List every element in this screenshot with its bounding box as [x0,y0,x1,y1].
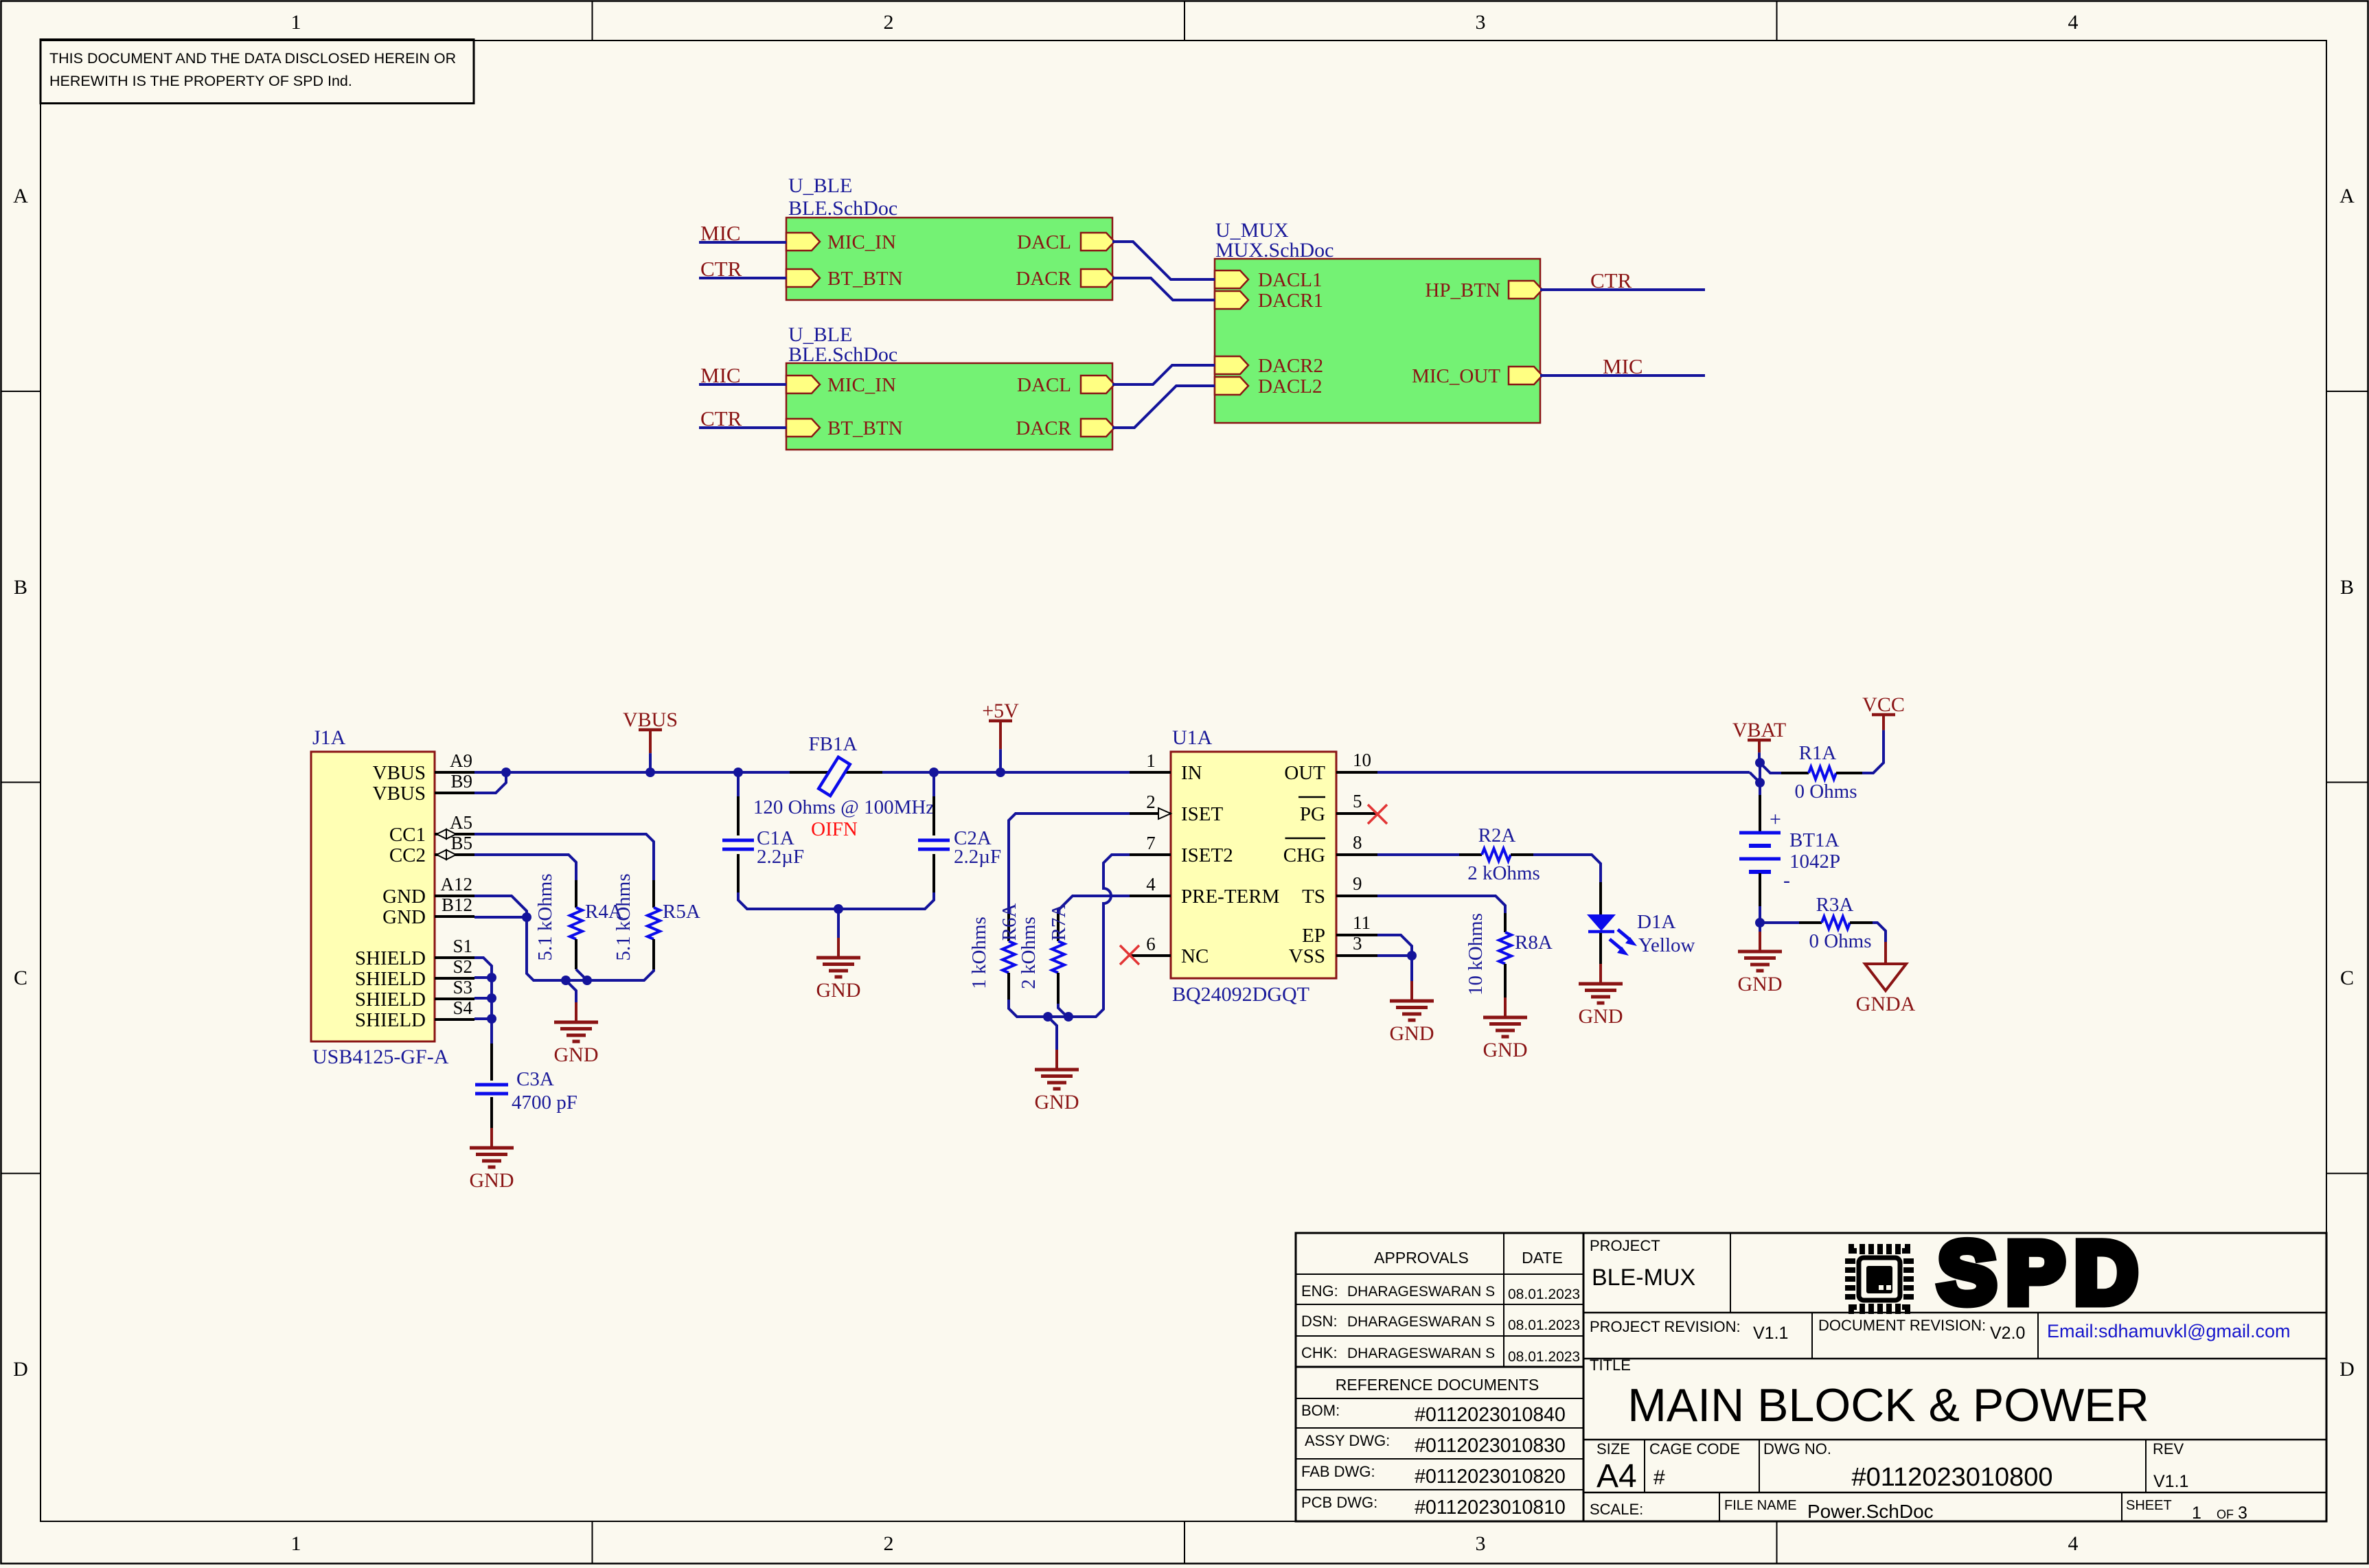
junction battery node [1755,778,1765,787]
junction S4 [487,1014,496,1024]
svg-text:PROJECT: PROJECT [1590,1237,1660,1254]
svg-text:3: 3 [2238,1503,2247,1523]
pin S1 SHIELD of J1A [355,936,474,969]
svg-text:S1: S1 [453,936,472,956]
svg-text:5.1 kOhms: 5.1 kOhms [534,873,556,960]
wire filter GND stem [837,909,840,938]
svg-text:DHARAGESWARAN S: DHARAGESWARAN S [1347,1314,1495,1330]
svg-text:DACL2: DACL2 [1258,376,1322,397]
power port VBUS [623,708,678,772]
pin B9 VBUS of J1A [373,771,474,805]
wire between VBAT and battery nodes [1759,763,1761,783]
svg-text:CC1: CC1 [389,824,426,846]
svg-text:BQ24092DGQT: BQ24092DGQT [1172,983,1309,1006]
svg-text:C: C [14,967,27,989]
svg-text:Email:sdhamuvkl@gmail.com: Email:sdhamuvkl@gmail.com [2047,1321,2291,1341]
svg-text:Yellow: Yellow [1638,934,1695,956]
svg-text:DACL1: DACL1 [1258,269,1322,291]
svg-text:VBUS: VBUS [373,783,426,805]
svg-text:B12: B12 [442,895,472,915]
title block frame [1296,1233,2326,1521]
svg-text:ASSY DWG:: ASSY DWG: [1305,1432,1390,1449]
wire VBUS rail to +5V [882,771,1130,774]
sheet symbol U_BLE (bottom) [786,363,1112,450]
pin 10 OUT of U1A [1284,750,1377,784]
sheet entry MIC_IN (top BLE) [786,231,896,253]
svg-text:C: C [2340,967,2354,989]
wire DACR (top BLE) to DACR1 [1112,278,1215,300]
svg-text:11: 11 [1353,912,1371,933]
svg-text:NC: NC [1181,945,1209,967]
sheet entry DACL (top BLE) [1017,231,1114,253]
sheet symbol U_BLE (top) [786,218,1112,300]
sheet entry HP_BTN [1425,279,1542,301]
svg-text:3: 3 [1353,933,1362,954]
ground GND (R6A R7A) [1035,1050,1079,1114]
sheet entry DACR (bottom BLE) [1016,417,1114,439]
svg-text:3: 3 [1476,11,1486,34]
svg-text:08.01.2023: 08.01.2023 [1508,1317,1580,1333]
resistor R6A [1003,914,1015,1000]
svg-text:B: B [2340,576,2354,599]
pin 2 input arrow [1158,808,1171,819]
svg-text:THIS DOCUMENT AND THE DATA DIS: THIS DOCUMENT AND THE DATA DISCLOSED HER… [49,50,456,67]
svg-text:CTR: CTR [1590,268,1632,292]
sheet entry MIC_OUT [1412,365,1542,387]
svg-text:USB4125-GF-A: USB4125-GF-A [312,1046,449,1068]
svg-text:10: 10 [1353,750,1371,770]
junction battery negative [1755,918,1765,927]
svg-text:DWG NO.: DWG NO. [1763,1440,1831,1457]
resistor R1A [1781,767,1862,779]
svg-text:C3A: C3A [516,1068,554,1090]
svg-text:MAIN BLOCK & POWER: MAIN BLOCK & POWER [1627,1379,2149,1431]
svg-text:3: 3 [1476,1532,1486,1555]
svg-text:120 Ohms @ 100MHz: 120 Ohms @ 100MHz [753,796,935,818]
zone labels right [2339,185,2355,1381]
svg-text:V1.1: V1.1 [2153,1472,2188,1491]
wire DACR (bottom BLE) to DACL2 [1112,386,1215,428]
pin 4 PRE-TERM of U1A [1130,874,1279,908]
wire HP_BTN to CTR [1540,288,1705,291]
pin A12 GND of J1A [382,874,474,908]
svg-text:OF: OF [2217,1508,2234,1521]
svg-text:GND: GND [470,1169,514,1192]
svg-text:1 kOhms: 1 kOhms [968,916,990,989]
svg-text:SHIELD: SHIELD [355,1009,426,1031]
wire SHIELD S4 [474,1017,492,1020]
capacitor C1A [722,772,754,892]
svg-text:A12: A12 [441,874,473,895]
svg-text:EP: EP [1302,925,1325,947]
pin A5 CC1 of J1A [389,812,474,846]
pin 5 PG of U1A [1298,791,1377,825]
svg-text:FB1A: FB1A [809,733,858,755]
svg-text:SHIELD: SHIELD [355,968,426,990]
svg-text:DACR: DACR [1016,417,1071,439]
junction S3 [487,993,496,1003]
svg-text:DACL: DACL [1017,231,1071,253]
svg-text:D: D [2339,1358,2355,1381]
svg-text:2 kOhms: 2 kOhms [1018,916,1040,989]
svg-text:9: 9 [1353,873,1362,894]
junction +5V stem [996,768,1005,777]
svg-text:VBAT: VBAT [1732,719,1786,741]
svg-text:GND: GND [382,886,426,908]
svg-text:0 Ohms: 0 Ohms [1794,781,1857,803]
svg-text:MIC_IN: MIC_IN [827,231,896,253]
svg-text:U_BLE: U_BLE [788,174,852,197]
svg-text:MUX.SchDoc: MUX.SchDoc [1215,239,1334,262]
svg-text:DOCUMENT REVISION:: DOCUMENT REVISION: [1818,1317,1986,1334]
svg-text:MIC_IN: MIC_IN [827,374,896,396]
junction GND tap [561,976,571,985]
no-connect cross pin 5 [1368,805,1387,824]
zone labels bottom [291,1532,2079,1555]
wire CTR to bottom BLE BT_BTN [699,426,786,429]
junction R7A bottom [1064,1012,1073,1022]
wire R1A to VCC [1862,743,1884,773]
ferrite bead FB1A [790,757,882,796]
pin S2 SHIELD of J1A [355,956,474,990]
wire R3A to GNDA [1873,923,1886,942]
svg-text:BT_BTN: BT_BTN [827,417,903,439]
scale row text [1590,1498,2247,1523]
power port VCC [1862,693,1905,743]
svg-text:GND: GND [1483,1039,1528,1061]
junction C2A top [929,768,939,777]
junction S2 [487,973,496,982]
IC U1A body [1171,752,1336,978]
svg-text:VCC: VCC [1862,693,1905,716]
sheet entry DACL2 [1215,376,1322,397]
svg-text:2 kOhms: 2 kOhms [1467,862,1540,884]
svg-text:SCALE:: SCALE: [1590,1501,1643,1518]
svg-text:4: 4 [2068,11,2079,34]
wire OUT rail [1377,771,1750,774]
svg-text:ISET2: ISET2 [1181,844,1233,866]
svg-text:FILE NAME: FILE NAME [1724,1498,1797,1513]
zone labels top [291,11,2079,34]
svg-text:MIC: MIC [1603,354,1643,378]
svg-text:4700 pF: 4700 pF [512,1092,577,1114]
svg-text:S3: S3 [453,977,472,998]
wire CC1 to R5A [474,834,654,880]
pin S4 SHIELD of J1A [355,998,474,1031]
svg-text:2: 2 [1146,792,1156,812]
svg-text:2: 2 [884,1532,894,1555]
svg-text:1042P: 1042P [1789,851,1840,873]
sheet entry BT_BTN (bottom BLE) [786,417,903,439]
wire shield bus vertical [490,978,493,1044]
svg-text:A5: A5 [450,812,472,833]
svg-text:SHEET: SHEET [2126,1498,2172,1513]
svg-text:REFERENCE DOCUMENTS: REFERENCE DOCUMENTS [1336,1376,1539,1394]
svg-text:BLE.SchDoc: BLE.SchDoc [788,197,897,220]
svg-text:1: 1 [1146,750,1156,771]
svg-text:V1.1: V1.1 [1753,1324,1788,1343]
svg-text:APPROVALS: APPROVALS [1374,1249,1469,1267]
wire R2A to D1A [1533,855,1601,882]
size row text [1596,1440,2188,1495]
wire DACL (bottom BLE) to DACR2 [1112,365,1215,384]
wire R6A bottom to ISET2 riser [1009,855,1130,1017]
document ownership note box [41,40,474,104]
svg-text:DACR1: DACR1 [1258,290,1323,312]
wire VBAT node to R1A [1760,763,1781,773]
capacitor C2A [918,772,950,892]
sheet entry MIC_IN (bottom BLE) [786,374,896,396]
connector J1A body [311,752,435,1041]
wire VSS [1377,954,1412,957]
sheet entry BT_BTN (top BLE) [786,268,903,290]
junction VBAT node [1755,758,1765,768]
svg-text:R8A: R8A [1515,932,1553,954]
battery BT1A [1739,783,1790,923]
svg-text:BLE.SchDoc: BLE.SchDoc [788,343,897,366]
pin A9 VBUS of J1A [373,750,474,784]
svg-text:J1A: J1A [312,726,346,749]
svg-text:B9: B9 [450,771,472,792]
svg-text:2.2µF: 2.2µF [954,846,1001,868]
wire SHIELD S2 [474,976,492,979]
svg-text:VSS: VSS [1289,945,1325,967]
svg-text:GND: GND [382,906,426,928]
zone divider columns top [593,1,1777,41]
svg-text:BT_BTN: BT_BTN [827,268,903,290]
pin 7 ISET2 of U1A [1130,833,1233,866]
svg-text:08.01.2023: 08.01.2023 [1508,1287,1580,1302]
junction B9/A9 [501,768,511,777]
wire MIC_OUT to MIC [1540,374,1705,377]
svg-text:#0112023010840: #0112023010840 [1415,1404,1566,1426]
svg-text:A9: A9 [450,750,472,771]
approvals table text [1301,1249,1580,1519]
pin 8 CHG of U1A [1283,832,1377,866]
wire SHIELD S1 [474,958,492,978]
pin B5 CC2 of J1A [389,833,474,866]
sheet entry DACR (top BLE) [1016,268,1114,290]
junction VBUS stem [645,768,655,777]
svg-text:V2.0: V2.0 [1990,1324,2025,1343]
svg-text:ISET: ISET [1181,803,1224,825]
svg-text:1: 1 [291,1532,301,1555]
svg-text:8: 8 [1353,832,1362,853]
svg-text:0 Ohms: 0 Ohms [1809,930,1871,952]
wire battery GND stem [1759,923,1761,932]
junction filter GND [834,904,843,914]
svg-text:REV: REV [2153,1440,2184,1457]
wire CC2 to R4A [474,855,576,880]
wire PRE-TERM to R7A [1058,896,1130,914]
svg-text:HP_BTN: HP_BTN [1425,279,1500,301]
zone divider rows left [1,391,41,1173]
LED D1A [1587,882,1637,964]
svg-text:PRE-TERM: PRE-TERM [1181,886,1279,908]
wire TS to R8A [1377,896,1505,913]
wire ISET to R6A [1009,814,1130,914]
ground GND (battery) [1738,932,1783,995]
svg-text:R1A: R1A [1799,742,1837,764]
ground GNDA [1856,942,1916,1015]
svg-text:BOM:: BOM: [1301,1402,1340,1419]
wire DACL (top BLE) to DACL1 [1112,242,1215,279]
svg-text:2.2µF: 2.2µF [757,846,804,868]
wire SHIELD S3 [474,997,492,1000]
svg-text:1: 1 [2192,1503,2201,1523]
svg-text:MIC_OUT: MIC_OUT [1412,365,1500,387]
wire VBUS B9 join [474,772,506,793]
wire OUT jog to battery node [1750,772,1760,783]
wire R4A bottom jog [576,969,587,980]
svg-text:4: 4 [1146,874,1156,895]
svg-text:A4: A4 [1596,1458,1637,1495]
svg-text:BT1A: BT1A [1789,829,1840,851]
svg-text:GND: GND [554,1044,599,1066]
svg-text:D1A: D1A [1637,911,1675,933]
pin 3 VSS of U1A [1289,933,1377,967]
capacitor C3A [475,1044,508,1128]
sheet entry DACR2 [1215,355,1323,377]
svg-text:DATE: DATE [1522,1249,1563,1267]
svg-text:PCB DWG:: PCB DWG: [1301,1494,1377,1511]
svg-text:CHK:: CHK: [1301,1344,1338,1361]
svg-text:DHARAGESWARAN S: DHARAGESWARAN S [1347,1284,1495,1300]
svg-text:U1A: U1A [1172,726,1213,749]
ground GND (USB CC resistors) [554,1002,599,1066]
no-connect cross pin 6 [1120,945,1139,965]
svg-text:SIZE: SIZE [1596,1440,1630,1457]
svg-text:IN: IN [1181,762,1202,784]
resistor R7A [1052,914,1064,1004]
svg-text:+: + [1770,808,1781,831]
sheet symbol U_MUX [1215,259,1540,423]
resistor R2A [1459,849,1533,861]
svg-text:TS: TS [1302,886,1325,908]
pin 11 EP of U1A [1302,912,1377,947]
wire MIC to bottom BLE MIC_IN [699,383,786,386]
wire GND bus to resistor bottoms [527,917,654,980]
svg-text:GND: GND [1579,1005,1623,1028]
svg-text:#0112023010830: #0112023010830 [1415,1435,1566,1457]
svg-text:Power.SchDoc: Power.SchDoc [1807,1501,1934,1522]
svg-text:#0112023010810: #0112023010810 [1415,1497,1566,1519]
ground GND (C3A) [470,1128,514,1192]
svg-text:BLE-MUX: BLE-MUX [1592,1265,1695,1291]
resistor R3A [1799,916,1873,929]
wire EP to VSS join [1377,935,1412,956]
svg-text:10 kOhms: 10 kOhms [1465,913,1487,995]
svg-text:OUT: OUT [1284,762,1325,784]
svg-text:VBUS: VBUS [623,708,678,731]
wire GND tap stem [566,980,576,1002]
svg-text:S2: S2 [453,956,472,977]
sheet entry DACL (bottom BLE) [1017,374,1114,396]
svg-text:DACR: DACR [1016,268,1071,290]
ground GND (VSS) [1390,981,1434,1045]
svg-text:08.01.2023: 08.01.2023 [1508,1349,1580,1365]
svg-text:CC2: CC2 [389,844,426,866]
svg-text:DHARAGESWARAN S: DHARAGESWARAN S [1347,1346,1495,1361]
svg-text:HEREWITH IS THE PROPERTY OF SP: HEREWITH IS THE PROPERTY OF SPD Ind. [49,73,352,89]
wire MIC to top BLE MIC_IN [699,241,786,244]
junction R4A bottom [582,976,592,985]
wire C1A C2A bottoms [738,892,934,909]
svg-text:GND: GND [816,979,861,1002]
svg-text:PROJECT REVISION:: PROJECT REVISION: [1590,1318,1741,1335]
wire VBUS A9 rail [474,771,790,774]
resistor R8A [1499,913,1511,998]
zone labels left [13,185,28,1381]
wire CTR to top BLE BT_BTN [699,277,786,279]
svg-text:+5V: +5V [982,700,1019,722]
wire CHG to R2A [1377,853,1459,856]
svg-text:R2A: R2A [1478,825,1516,846]
svg-text:1: 1 [291,11,301,34]
svg-text:4: 4 [2068,1532,2079,1555]
svg-text:GND: GND [1738,973,1783,995]
zone divider columns bottom [593,1521,1777,1563]
junction R6A GND tap [1043,1012,1053,1022]
svg-text:5.1 kOhms: 5.1 kOhms [613,873,634,960]
resistor R5A [648,880,660,969]
svg-text:R7A: R7A [1048,903,1070,941]
svg-text:GND: GND [1390,1022,1434,1045]
svg-text:CHG: CHG [1283,844,1325,866]
junction EP/VSS [1407,951,1417,960]
svg-text:GNDA: GNDA [1856,993,1916,1015]
ground GND (D1A) [1579,964,1623,1028]
power port VBAT [1732,719,1786,763]
sheet entry DACR1 [1215,290,1323,312]
svg-text:A: A [2339,185,2355,207]
pin 2 ISET of U1A [1130,792,1224,825]
zone divider rows right [2326,391,2368,1173]
revision row text [1590,1317,2025,1343]
svg-text:DSN:: DSN: [1301,1313,1338,1330]
wire GND pins A12 B12 [474,896,527,917]
svg-text:A: A [13,185,28,207]
svg-text:R5A: R5A [663,901,700,923]
svg-text:S4: S4 [453,998,472,1018]
ground GND (R8A) [1483,998,1528,1061]
ground GND (C1A C2A) [816,938,861,1002]
svg-text:OIFN: OIFN [811,818,858,840]
power port +5V [982,700,1019,772]
svg-text:B: B [14,576,27,599]
title cell text [1590,1357,2149,1431]
svg-text:#0112023010820: #0112023010820 [1415,1466,1566,1488]
pin 1 IN of U1A [1130,750,1202,784]
svg-text:6: 6 [1146,934,1156,954]
svg-text:PG: PG [1300,803,1325,825]
wire VSS GND stem [1410,956,1413,981]
svg-text:VBUS: VBUS [373,762,426,784]
junction A12/B12 [522,912,531,922]
svg-text:FAB DWG:: FAB DWG: [1301,1463,1375,1480]
project cell text [1590,1237,1695,1291]
svg-text:SPD: SPD [1938,1224,2147,1322]
svg-text:CAGE CODE: CAGE CODE [1649,1440,1740,1457]
sheet entry DACL1 [1215,269,1322,291]
wire R7A bottom jog [1058,1004,1067,1017]
svg-text:2: 2 [884,11,894,34]
svg-text:#0112023010800: #0112023010800 [1851,1463,2052,1492]
SPD logo chip icon [1845,1244,1914,1314]
junction C1A top [733,768,743,777]
resistor R4A [570,880,582,969]
svg-text:DACL: DACL [1017,374,1071,396]
